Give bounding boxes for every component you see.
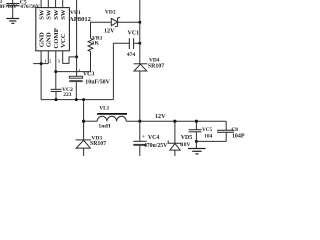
svg-text:+: + [78,68,81,74]
capacitor C8 104P [217,121,234,141]
svg-text:2: 2 [49,60,51,64]
wire pin5 top [40,0,42,8]
diode VD5 zener 18V [168,141,181,157]
wire 12V output line [84,120,98,122]
svg-text:C8: C8 [231,127,238,133]
op-amp U1 : IC VU1 AP8012 box [36,8,70,51]
inductor VL1 1mH [97,114,127,121]
svg-text:VD2: VD2 [105,10,116,16]
svg-text:1K: 1K [92,40,100,46]
svg-text:COMP: COMP [53,28,60,48]
pin labels GND GND COMP VCC [38,28,67,48]
svg-text:SW: SW [46,9,53,20]
pin numbers 1 2 3 [45,60,60,64]
svg-text:SR107: SR107 [148,63,164,69]
capacitor VC3 10uF/50V electrolytic [69,76,82,99]
wire VCC rail vertical from top [76,0,78,76]
capacitor VC4 470u/25V electrolytic [133,121,146,156]
svg-text:470u/25V: 470u/25V [144,143,168,149]
svg-text:SW: SW [53,9,60,20]
svg-text:GND: GND [38,32,45,47]
svg-text:3: 3 [58,60,60,64]
wire VD2 cathode to rail [118,21,140,23]
wire COMP to VR1 bottom [56,71,91,73]
svg-text:12V: 12V [104,29,115,35]
ground (right) [188,149,206,154]
svg-text:223: 223 [63,92,72,98]
svg-text:VC4: VC4 [148,135,160,141]
capacitor VC2 223 [51,89,62,91]
svg-text:SW: SW [38,9,45,20]
node VC2-bus [55,98,58,101]
svg-text:VC5: VC5 [202,127,212,133]
node VC5 bottom junction [195,140,198,143]
svg-text:0F/16V: 0F/16V [0,4,17,10]
wire main rail vertical [139,0,141,64]
wire pin3 COMP down [55,51,57,89]
capacitor VC5 104 [189,121,202,148]
svg-text:1mH: 1mH [98,124,111,130]
svg-text:VL1: VL1 [99,105,109,111]
wire pin8 top [62,0,64,8]
diode VD4 SR107 [134,64,148,71]
svg-text:18V: 18V [181,142,191,148]
node VCC junction [75,55,78,58]
wire pin7 top [55,0,57,8]
svg-text:+: + [142,134,145,140]
wire to VC1 [113,42,129,44]
wire coil to rail and right [126,120,226,122]
wire bottom link VC5-C8 [196,140,226,142]
wire VR1 bottom [90,52,92,72]
node VL1 left junction [82,120,85,123]
wire pin2 GND [47,51,49,64]
ground (left, under C5) [6,19,19,24]
svg-text:SW: SW [60,9,67,20]
node bus to VD3 drop [82,98,85,101]
diode VD3 SR107 [76,140,92,156]
node VC1-rail [138,42,141,45]
wire drop to VL1/VD3 [83,100,85,140]
node VD5 junction on 12V line [173,120,176,123]
capacitor VC1 474 [129,38,133,49]
wire pin1 GND down to bus [41,51,113,100]
svg-text:104: 104 [204,133,212,139]
svg-text:10uF/50V: 10uF/50V [85,80,110,86]
svg-text:VD5: VD5 [181,135,193,141]
svg-text:GND: GND [46,32,53,47]
capacitor C5 [6,0,19,18]
wire GND stub left [33,63,48,65]
svg-text:VCC: VCC [60,33,67,48]
node VC5 junction on 12V line [195,120,198,123]
svg-text:AP8012: AP8012 [69,16,92,23]
node rail-12V line [138,120,141,123]
wire VD2 anode from corner [91,22,112,38]
node pin1-gnd junction [40,62,43,65]
svg-text:104P: 104P [232,133,245,139]
svg-text:476/50V: 476/50V [20,4,40,10]
svg-text:SR107: SR107 [90,141,106,147]
pin labels SW x4 [38,9,67,20]
node COMP junction [54,70,57,73]
svg-text:VC3: VC3 [83,72,95,78]
wire pin6 top [47,0,49,8]
wire pin4 VCC jog [63,51,77,64]
svg-text:12V: 12V [155,114,166,120]
resistor VR1 1K [88,38,93,51]
svg-text:474: 474 [127,52,135,58]
diode VD2 zener 12V [111,17,120,27]
wire VD5 cathode [174,121,176,143]
wire bus right end up [112,43,114,99]
wire VC2 bottom [55,91,57,99]
wire VC1 to rail [134,42,140,44]
node VC3-bus [75,98,78,101]
wire VD4 anode down to 12V line [139,71,141,121]
svg-text:VC1: VC1 [128,31,140,37]
svg-text:1: 1 [45,60,47,64]
node VD2-rail [138,21,141,24]
